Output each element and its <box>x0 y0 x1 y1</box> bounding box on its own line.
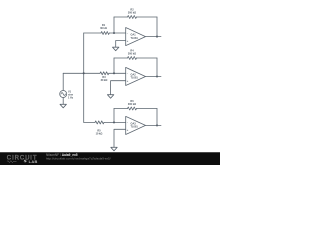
wire: stage1 plus input to ground <box>116 41 126 48</box>
footer credit line <box>46 153 111 160</box>
svg-text:300 kΩ: 300 kΩ <box>128 12 136 15</box>
label R1 value <box>100 24 107 30</box>
wire: stage1 feedback top right lead <box>137 16 158 18</box>
wire: input bus vertical x=83.7 from node A (y33) to stage3 corner <box>83 33 85 122</box>
wire: stage3 feedback left vertical <box>113 109 115 123</box>
svg-text:TL081: TL081 <box>131 77 139 80</box>
footer black bar <box>0 152 220 165</box>
label V1 value <box>68 91 74 100</box>
wire: stage3 minus input horizontal from bus corner <box>84 121 95 123</box>
svg-text:30 kΩ: 30 kΩ <box>100 27 107 30</box>
wire: R3 right lead to op-amp U2 minus <box>109 72 126 74</box>
wire: stage1 minus input horizontal from bus corner to R1 <box>84 32 101 34</box>
ground GND4 (below V1) <box>60 104 66 108</box>
node: junction J4 stage2 output <box>156 75 158 77</box>
svg-text:300 kΩ: 300 kΩ <box>128 53 136 56</box>
wire: stage3 feedback top left lead <box>114 108 128 110</box>
svg-text:TL081: TL081 <box>131 37 139 40</box>
wire: stage1 feedback right vertical to output <box>156 17 158 37</box>
svg-text:1 Hz: 1 Hz <box>68 96 74 99</box>
wire: stage1 output stub <box>146 36 162 38</box>
label R5 value <box>96 130 103 136</box>
svg-text:10 kΩ: 10 kΩ <box>96 133 103 136</box>
node: junction J6 stage3 output <box>156 124 158 126</box>
svg-text:+: + <box>127 39 129 43</box>
wire: stage2 feedback left vertical <box>113 58 115 73</box>
svg-text:-: - <box>127 31 128 35</box>
resistor R3 30k zigzag (stage2 input) <box>100 72 109 75</box>
wire: stage1 feedback top left lead <box>114 16 128 18</box>
svg-text:+: + <box>127 79 129 83</box>
wire: stage3 feedback right vertical <box>156 109 158 126</box>
svg-text:-: - <box>127 120 128 124</box>
node: junction J3 feedback tap stage2 <box>113 72 115 74</box>
node: junction J2 stage1 output <box>156 36 158 38</box>
ground GND3 (stage3 plus) <box>111 147 117 151</box>
resistor R4 300k zigzag (stage2 feedback) <box>128 57 137 60</box>
wire: stage1 feedback left vertical <box>113 17 115 33</box>
resistor R5 10k zigzag (stage3 input) <box>95 121 104 124</box>
resistor R1 30k zigzag <box>101 32 109 35</box>
wire: stage2 output stub <box>146 76 162 78</box>
wire: stage2 feedback right vertical <box>156 58 158 77</box>
node: junction J1 feedback tap on stage1 input <box>113 32 115 34</box>
wire: V1 top horizontal to bus node A2 <box>63 72 100 74</box>
svg-text:300 kΩ: 300 kΩ <box>128 103 136 106</box>
label R4 value <box>128 50 136 56</box>
op-amp U3 TL081 triangle <box>126 116 146 134</box>
wire: R5 right lead to op-amp U3 minus <box>104 121 126 123</box>
svg-text:-: - <box>127 71 128 75</box>
wire: stage2 plus input to ground <box>111 81 126 95</box>
op-amp U1 TL081 triangle <box>126 28 146 46</box>
node: junction J5 feedback tap stage3 <box>113 121 115 123</box>
wire: stage3 output stub <box>146 124 162 126</box>
resistor R6 300k zigzag (stage3 feedback) <box>128 107 137 110</box>
ground GND2 (stage2 plus) <box>107 95 113 99</box>
ground GND1 (stage1 plus) <box>113 47 119 51</box>
wire: R1 right lead to op-amp U1 minus input <box>109 32 125 34</box>
CircuitLab logo wordmark <box>7 156 38 164</box>
op-amp U2 TL081 triangle <box>126 67 146 85</box>
svg-text:+: + <box>127 128 129 132</box>
label R6 value <box>128 100 136 106</box>
label R2 value <box>128 9 136 15</box>
wire: stage3 feedback top right lead <box>137 108 158 110</box>
svg-text:TL081: TL081 <box>131 126 139 129</box>
wire: stage3 plus input to ground <box>114 129 126 147</box>
voltage source V1 sine <box>60 73 67 104</box>
resistor R2 300k zigzag (stage1 feedback) <box>128 16 137 19</box>
node: junction bus/V1 <box>83 72 85 74</box>
wire: stage2 feedback top left lead <box>114 57 128 59</box>
svg-text:30 kΩ: 30 kΩ <box>101 79 108 82</box>
wire: stage2 feedback top right lead <box>137 57 158 59</box>
label R3 value <box>101 76 108 82</box>
